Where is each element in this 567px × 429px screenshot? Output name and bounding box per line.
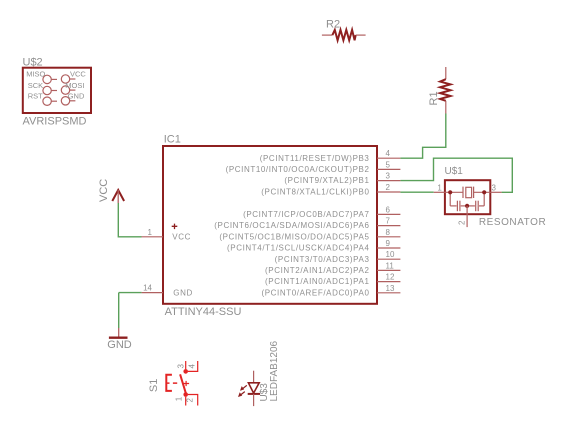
IC1 pin 5 stub xyxy=(377,168,400,170)
resistor R2 left lead xyxy=(322,34,333,36)
svg-text:3: 3 xyxy=(386,172,391,181)
resonator U$1 body xyxy=(445,180,490,214)
U$2 pad MISO xyxy=(43,75,57,83)
svg-text:6: 6 xyxy=(386,205,391,214)
IC1 pin 2 stub xyxy=(377,191,400,193)
switch S1 contact dot bottom xyxy=(183,392,188,397)
wire net from IC1 pin PB0 (pin 2) to resonator pin 1 xyxy=(400,191,433,193)
svg-text:VCC: VCC xyxy=(70,70,86,79)
svg-text:GND: GND xyxy=(173,289,193,298)
U$2 pad RST xyxy=(43,97,57,105)
switch S1 cross mark xyxy=(183,381,189,386)
LED U$3 cathode bar xyxy=(248,393,260,395)
svg-text:LEDFAB1206: LEDFAB1206 xyxy=(269,340,280,401)
svg-text:1: 1 xyxy=(437,184,442,193)
IC1 pin 6 stub xyxy=(377,213,400,215)
svg-text:2: 2 xyxy=(186,398,195,403)
svg-text:(PCINT0/AREF/ADC0)PA0: (PCINT0/AREF/ADC0)PA0 xyxy=(261,288,369,297)
svg-text:VCC: VCC xyxy=(172,233,191,242)
LED U$3 top lead xyxy=(253,371,255,383)
svg-text:(PCINT5/OC1B/MISO/DO/ADC5)PA5: (PCINT5/OC1B/MISO/DO/ADC5)PA5 xyxy=(219,232,369,241)
svg-text:12: 12 xyxy=(386,273,395,282)
LED U$3 emission arrow 2 xyxy=(238,392,245,397)
IC1 pin 14 stub xyxy=(142,292,163,294)
resonator U$1 junction dot center xyxy=(465,204,469,208)
svg-text:10: 10 xyxy=(386,250,395,259)
svg-text:1: 1 xyxy=(174,396,183,401)
resonator U$1 junction dot left xyxy=(448,190,452,194)
resistor R2 right lead xyxy=(356,34,366,36)
IC1 pin 4 stub xyxy=(377,157,400,159)
wire GND to IC1 pin 14 xyxy=(119,292,142,294)
svg-text:9: 9 xyxy=(386,239,391,248)
svg-text:7: 7 xyxy=(386,217,391,226)
IC1 pin 10 stub xyxy=(377,258,400,260)
svg-text:GND: GND xyxy=(107,339,132,351)
svg-text:1: 1 xyxy=(148,228,153,237)
resonator U$1 junction dot right xyxy=(482,190,486,194)
IC1 pin 9 stub xyxy=(377,247,400,249)
switch S1 actuator dashed link xyxy=(166,382,177,384)
svg-text:(PCINT7/ICP/OC0B/ADC7)PA7: (PCINT7/ICP/OC0B/ADC7)PA7 xyxy=(243,210,369,219)
svg-text:(PCINT9/XTAL2)PB1: (PCINT9/XTAL2)PB1 xyxy=(284,176,369,185)
svg-text:RESONATOR: RESONATOR xyxy=(479,217,546,228)
svg-text:3: 3 xyxy=(492,184,497,193)
IC1 pin 3 stub xyxy=(377,180,400,182)
svg-text:(PCINT2/AIN1/ADC2)PA2: (PCINT2/AIN1/ADC2)PA2 xyxy=(265,266,369,275)
svg-text:(PCINT6/OC1A/SDA/MOSI/ADC6)PA6: (PCINT6/OC1A/SDA/MOSI/ADC6)PA6 xyxy=(214,221,369,230)
resonator U$1 inner capacitors xyxy=(450,192,484,211)
IC1 pin 13 stub xyxy=(377,292,400,294)
svg-text:14: 14 xyxy=(143,283,152,292)
switch S1 pin 1 line xyxy=(185,397,187,406)
IC1 pin 8 stub xyxy=(377,236,400,238)
power symbol GND stem xyxy=(118,328,120,339)
svg-text:(PCINT11/RESET/DW)PB3: (PCINT11/RESET/DW)PB3 xyxy=(260,154,370,163)
switch S1 lever xyxy=(180,374,186,393)
IC1 pin 1 plus mark xyxy=(172,224,178,230)
LED U$3 emission arrow 1 xyxy=(240,385,247,390)
resistor R2 zigzag body xyxy=(332,30,355,40)
svg-text:13: 13 xyxy=(386,284,395,293)
svg-text:4: 4 xyxy=(187,364,196,369)
resistor R1 top lead xyxy=(445,67,447,79)
resonator U$1 pin 1 stub xyxy=(434,191,445,193)
IC1 pin 7 stub xyxy=(377,225,400,227)
U$2 pad MOSI xyxy=(61,86,75,94)
svg-text:R2: R2 xyxy=(326,19,340,31)
switch S1 actuator bracket xyxy=(166,375,172,391)
svg-text:GND: GND xyxy=(68,91,85,100)
svg-text:U$1: U$1 xyxy=(445,166,464,177)
svg-text:3: 3 xyxy=(176,364,185,369)
svg-text:4: 4 xyxy=(386,149,391,158)
U$2 pad GND xyxy=(61,97,75,105)
connector U$2 body xyxy=(23,68,91,113)
svg-text:(PCINT10/INT0/OC0A/CKOUT)PB2: (PCINT10/INT0/OC0A/CKOUT)PB2 xyxy=(226,165,370,174)
svg-text:2: 2 xyxy=(458,220,467,225)
svg-text:(PCINT8/XTAL1/CLKI)PB0: (PCINT8/XTAL1/CLKI)PB0 xyxy=(261,188,369,197)
svg-text:8: 8 xyxy=(386,228,391,237)
power symbol VCC arrow xyxy=(112,190,124,201)
switch S1 pin 3 line xyxy=(185,361,187,369)
resonator U$1 pin 3 stub xyxy=(490,191,501,193)
wire net from IC1 pin PB1 (pin 3) to resonator pin 3 xyxy=(400,158,512,192)
svg-text:U$3: U$3 xyxy=(259,383,270,402)
LED U$3 triangle xyxy=(248,383,259,393)
resistor R1 zigzag body xyxy=(440,79,450,101)
IC1 pin 11 stub xyxy=(377,269,400,271)
svg-text:VCC: VCC xyxy=(98,179,110,202)
switch S1 contact dot top xyxy=(183,369,188,374)
wire net from R1 to IC1 pin PB3 (pin 4) xyxy=(400,114,445,159)
svg-text:ATTINY44-SSU: ATTINY44-SSU xyxy=(165,306,242,318)
power symbol GND bar xyxy=(109,337,128,339)
resonator U$1 inner crystal xyxy=(445,187,490,198)
switch S1 pin 4 line xyxy=(188,361,198,371)
svg-text:11: 11 xyxy=(386,261,395,270)
svg-text:S1: S1 xyxy=(148,379,160,392)
svg-text:(PCINT1/AIN0/ADC1)PA1: (PCINT1/AIN0/ADC1)PA1 xyxy=(265,277,369,286)
power symbol VCC stem xyxy=(117,190,119,203)
svg-text:RST: RST xyxy=(28,91,43,100)
svg-text:SCK: SCK xyxy=(28,81,43,90)
svg-text:MISO: MISO xyxy=(26,70,45,79)
svg-text:MOSI: MOSI xyxy=(65,81,84,90)
wire GND vertical xyxy=(118,293,120,328)
switch S1 pin 2 line xyxy=(188,395,198,406)
wire VCC to IC1 pin 1 xyxy=(118,203,141,237)
svg-text:5: 5 xyxy=(386,160,391,169)
LED U$3 bottom lead xyxy=(253,394,255,406)
IC1 pin 12 stub xyxy=(377,281,400,283)
svg-text:IC1: IC1 xyxy=(164,133,181,145)
svg-text:AVRISPSMD: AVRISPSMD xyxy=(23,115,87,127)
svg-text:(PCINT3/T0/ADC3)PA3: (PCINT3/T0/ADC3)PA3 xyxy=(275,255,370,264)
svg-text:2: 2 xyxy=(386,183,391,192)
svg-text:U$2: U$2 xyxy=(23,57,43,69)
IC1 body xyxy=(163,146,377,304)
resistor R1 bottom lead xyxy=(445,101,447,114)
svg-text:(PCINT4/T1/SCL/USCK/ADC4)PA4: (PCINT4/T1/SCL/USCK/ADC4)PA4 xyxy=(227,244,369,253)
U$2 pad VCC xyxy=(61,75,75,83)
IC1 pin 1 stub xyxy=(142,236,164,238)
U$2 pad SCK xyxy=(43,86,57,94)
resonator U$1 pin 2 stub xyxy=(466,206,468,227)
